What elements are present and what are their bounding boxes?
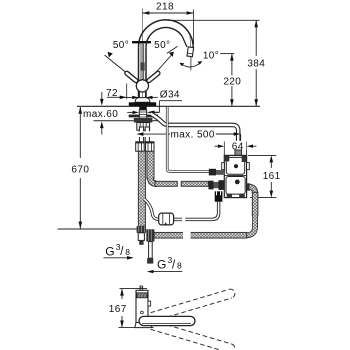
label max. 500 xyxy=(136,131,151,137)
supply hose stems below nut xyxy=(139,127,143,142)
bottom view: dimension 167 xyxy=(121,289,123,299)
spout outer arc xyxy=(138,20,193,53)
dimension 161 xyxy=(248,154,276,156)
box top corner bolts xyxy=(225,156,229,161)
hose B horizontal braided run xyxy=(155,181,177,186)
dimension 670 xyxy=(79,107,81,158)
mounting nut xyxy=(137,123,150,131)
dimension 220 xyxy=(231,54,233,107)
swing arc 10 degrees xyxy=(180,62,201,67)
bottom view deck line xyxy=(119,327,154,329)
bottom view lever nub xyxy=(148,301,151,306)
svg-text:8: 8 xyxy=(177,260,182,270)
bottom view top reference line xyxy=(120,288,148,290)
box bottom feet xyxy=(227,194,232,197)
box upper module xyxy=(226,157,244,174)
lever right 50deg arrowhead xyxy=(169,52,174,57)
cable S-curve near hoses xyxy=(144,199,159,219)
bottom view swivel dashed spout lower xyxy=(151,321,235,350)
tube down to G3/8 second xyxy=(149,242,153,259)
extension line right of 218 xyxy=(193,10,195,45)
threaded shank below deck xyxy=(139,106,146,120)
reference line spout apex (384 top) xyxy=(168,19,260,21)
faucet column xyxy=(138,47,140,98)
max.60 arrow top xyxy=(101,92,103,100)
lever left 50deg arrowhead xyxy=(108,52,113,58)
svg-text:max. 500: max. 500 xyxy=(171,130,215,141)
670 bottom reference line xyxy=(58,228,138,230)
box divider xyxy=(224,174,246,176)
spout inner arc xyxy=(146,27,182,47)
countertop deck line xyxy=(77,105,260,107)
svg-text:220: 220 xyxy=(223,76,241,87)
svg-text:max.60: max.60 xyxy=(83,109,118,120)
lever right body xyxy=(149,73,158,80)
mounting flange xyxy=(134,118,153,123)
bottom view swivel dashed spout upper xyxy=(151,289,235,321)
control cable from faucet to box xyxy=(167,107,209,171)
spray axis line xyxy=(190,55,192,70)
bottom view base xyxy=(135,323,152,328)
washer bars xyxy=(129,115,140,118)
counter underside line left xyxy=(94,120,134,122)
return hose end fitting xyxy=(146,229,154,241)
box side tabs xyxy=(222,163,225,170)
svg-text:50°: 50° xyxy=(154,40,170,51)
svg-text:167: 167 xyxy=(109,304,127,315)
dimension 64 xyxy=(223,142,225,156)
tilted axis tick xyxy=(167,46,178,53)
bottom view solid spout tube xyxy=(139,316,195,325)
spout neck to head xyxy=(182,36,187,47)
battery cable from box bottom xyxy=(173,202,219,220)
svg-text:Ø34: Ø34 xyxy=(160,90,180,101)
U-turn hose bottom right xyxy=(246,215,255,236)
svg-text:G: G xyxy=(105,244,114,258)
svg-text:384: 384 xyxy=(247,59,265,70)
counter underside line right xyxy=(152,120,160,122)
svg-text:G: G xyxy=(157,258,166,272)
hose A hex fitting xyxy=(136,142,145,151)
svg-text:10°: 10° xyxy=(203,51,219,62)
lever left body xyxy=(127,73,136,80)
hose B hex fitting xyxy=(146,142,155,151)
bottom view faucet column xyxy=(136,290,148,322)
hose B elbow to horizontal xyxy=(150,178,156,184)
max.60 arrow bottom xyxy=(101,128,103,135)
hose inlet fitting at box top xyxy=(235,150,242,156)
supply hose A braided xyxy=(138,151,145,227)
hole arrows at shank xyxy=(127,111,134,113)
svg-text:161: 161 xyxy=(263,171,281,182)
cable plug fittings at box xyxy=(209,169,216,176)
svg-text:50°: 50° xyxy=(113,40,129,51)
supply hose B braided xyxy=(147,151,154,179)
control box xyxy=(224,155,246,197)
hose A end fitting xyxy=(137,226,146,233)
lever left line xyxy=(105,55,137,81)
box lower module xyxy=(226,177,245,195)
spray head xyxy=(189,36,192,49)
neck below ball xyxy=(138,92,140,98)
lever vertical tick xyxy=(132,41,151,43)
grey block on column xyxy=(140,62,144,70)
dimension 384 xyxy=(255,20,257,106)
pull-out spray hose to box xyxy=(151,114,239,151)
lever right line xyxy=(149,54,173,81)
inline connector cylinder xyxy=(159,213,174,225)
hose B fittings at box xyxy=(209,181,214,190)
svg-text:8: 8 xyxy=(125,247,130,257)
cable gap xyxy=(182,217,185,222)
box bottom plug xyxy=(215,191,223,201)
return hose braided xyxy=(154,232,247,238)
escutcheon base xyxy=(135,98,150,103)
box right elbow hose xyxy=(250,187,256,194)
box right elbow fitting xyxy=(247,183,251,190)
dimension 218 xyxy=(142,12,193,14)
svg-text:218: 218 xyxy=(156,2,174,13)
svg-text:670: 670 xyxy=(71,164,89,175)
base diameter arrows xyxy=(125,96,134,98)
ball joint xyxy=(136,80,148,92)
centerline faucet axis xyxy=(141,9,143,105)
hose down from box right xyxy=(252,192,258,215)
